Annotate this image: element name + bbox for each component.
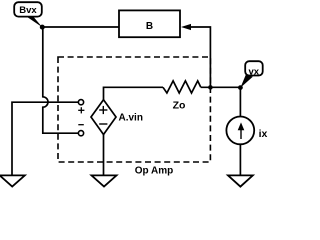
svg-text:vx: vx (249, 66, 260, 77)
svg-text:A.vin: A.vin (119, 113, 143, 124)
svg-text:Zo: Zo (173, 100, 186, 112)
svg-text:ix: ix (259, 128, 268, 140)
svg-text:Op Amp: Op Amp (135, 166, 174, 177)
svg-text:Bvx: Bvx (19, 5, 37, 16)
svg-text:B: B (146, 21, 153, 32)
